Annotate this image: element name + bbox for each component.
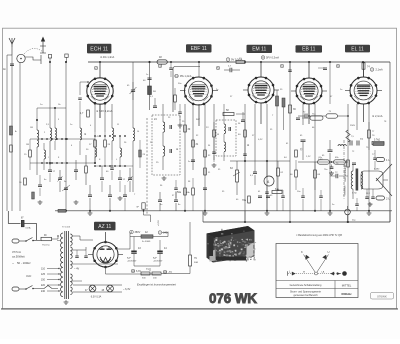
svg-text:8μF: 8μF: [153, 258, 157, 260]
IF transformer 2: [216, 104, 236, 161]
text 23: [134, 154, 159, 196]
svg-text:EB 11: EB 11: [302, 47, 315, 53]
hatch r: [139, 140, 142, 168]
svg-text:8μF: 8μF: [127, 258, 131, 260]
svg-text:1M: 1M: [30, 127, 33, 129]
ground: [162, 176, 167, 180]
svg-text:+450/550V: +450/550V: [153, 261, 163, 263]
tube V2 ECH11: [184, 77, 212, 105]
wire B+: [118, 232, 130, 249]
svg-text:076WK: 076WK: [377, 294, 387, 298]
wire: [255, 104, 267, 211]
value labels scatter E: [160, 181, 261, 201]
pad x66: [65, 54, 68, 62]
aerial arrow symbol: [40, 37, 46, 54]
speaker caps: [365, 189, 375, 206]
connector 2L: [376, 196, 390, 201]
wire: [134, 258, 160, 266]
resistor 6P: [137, 203, 151, 222]
wire ground bus A: [55, 210, 392, 212]
fuse: [8, 211, 36, 240]
cathode resistor: [347, 160, 356, 167]
IF transformer 1: [152, 104, 180, 175]
wire detector line: [230, 160, 290, 162]
svg-text:② 40v 1,4mA: ② 40v 1,4mA: [100, 56, 115, 59]
svg-text:Feld. erforderlich: Feld. erforderlich: [344, 163, 347, 182]
ground: [64, 300, 69, 304]
vals3: [160, 204, 373, 206]
svg-text:~ 4V: ~ 4V: [74, 268, 80, 271]
capacitor antenna series: [3, 64, 14, 71]
antenna switch: [17, 48, 43, 64]
svg-text:1n: 1n: [146, 74, 148, 76]
svg-text:× Bandabstimmung aus RFN-VHF: × Bandabstimmung aus RFN-VHF Tx QB: [296, 234, 342, 237]
svg-text:076 WK: 076 WK: [209, 291, 257, 306]
lamp 1: [85, 285, 96, 292]
top cap 73: [357, 138, 363, 146]
res: [174, 88, 177, 110]
volume pot: [230, 161, 240, 195]
res 33: [213, 122, 220, 148]
bus text: [100, 56, 115, 59]
svg-text:EBF 11: EBF 11: [191, 46, 208, 52]
osc text: [40, 104, 61, 106]
cap: [241, 112, 245, 122]
antenna: [9, 38, 15, 55]
cap 19: [100, 166, 104, 192]
svg-text:Tonblende: Tonblende: [345, 185, 347, 196]
tube V1 ECH11 mixer: [87, 78, 114, 105]
svg-text:③ 94V 4,2mA: ③ 94V 4,2mA: [96, 109, 113, 113]
tube V3 EBF11: [248, 77, 275, 104]
wire ground bus B: [203, 221, 390, 223]
resistor: [80, 110, 89, 117]
resistor: [204, 150, 207, 157]
band switch contacts row 2: [41, 162, 126, 167]
cap 77: [373, 150, 377, 170]
cap under V3: [265, 186, 269, 211]
val text: [26, 124, 127, 183]
lamp 2: [102, 285, 114, 292]
wire: [348, 104, 369, 222]
resistor: [85, 155, 88, 185]
svg-text:⑨ 2,1mA: ⑨ 2,1mA: [372, 114, 383, 118]
label 6,3V: [131, 269, 141, 273]
svg-text:6,3V: 6,3V: [136, 270, 141, 273]
svg-text:96V: 96V: [196, 119, 200, 121]
svg-text:6,3V 0,3A: 6,3V 0,3A: [91, 296, 102, 299]
thermo resistor: [41, 235, 59, 247]
tube label EL 11: [345, 45, 370, 53]
wire HV2: [72, 247, 86, 250]
speaker dashdot: [343, 140, 345, 200]
cap: [258, 196, 270, 198]
oscillator coil L1: [37, 120, 39, 175]
coupling cap 72: [298, 104, 322, 119]
switch linkage dash: [146, 118, 148, 214]
svg-text:600kHz: 600kHz: [341, 292, 352, 296]
legend table: [276, 244, 358, 298]
coil L5: [80, 112, 82, 155]
hum pot 71: [141, 268, 161, 280]
chassis photograph: [207, 226, 257, 263]
svg-text:AZ 11: AZ 11: [98, 224, 111, 230]
svg-text:250V: 250V: [350, 125, 356, 127]
text brumm: [137, 283, 176, 287]
capacitor under IF1b: [174, 192, 178, 211]
res 28: [104, 132, 111, 166]
resistor 30: [184, 125, 191, 132]
svg-text:377mA: 377mA: [12, 250, 21, 254]
resistor on ground bus: [58, 209, 66, 212]
svg-text:5.7Ω: 5.7Ω: [352, 193, 357, 195]
junction component: [345, 206, 357, 223]
wire V4 top: [291, 62, 327, 124]
capacitor: [203, 188, 207, 190]
svg-text:EM 11: EM 11: [252, 47, 266, 53]
text agc: [176, 119, 209, 151]
text v1: [84, 133, 100, 138]
label 95V: [175, 74, 192, 78]
svg-text:Thermo: Thermo: [42, 244, 50, 247]
tube V5 EL11 output: [350, 77, 378, 105]
lamp caption: [91, 296, 102, 299]
vals: [150, 83, 343, 98]
mains plug lower: [12, 287, 19, 291]
tone line: [298, 157, 348, 175]
cap 78: [355, 198, 359, 211]
cap 20: [118, 170, 126, 192]
svg-text:2,1mA: 2,1mA: [376, 69, 384, 72]
cap 64: [281, 190, 285, 211]
wire: [244, 211, 246, 222]
wire HV to AZ plate: [72, 236, 93, 240]
tuning gang C1: [58, 170, 63, 192]
svg-text:U: U: [328, 250, 330, 254]
wire: [65, 61, 67, 211]
svg-text:150: 150: [41, 279, 46, 282]
junctions: [36, 61, 96, 164]
resistor 31: [192, 140, 199, 147]
wire AZ cathode: [106, 267, 161, 274]
screen cap v2: [178, 104, 183, 127]
capacitor under IF1: [158, 192, 162, 211]
cap: [328, 140, 333, 211]
wire osc fb: [95, 165, 133, 166]
top cap pair: [338, 141, 352, 147]
wire grid1: [80, 81, 89, 95]
wire V5 top: [345, 62, 382, 122]
label 9V 0,3mA: [226, 58, 242, 62]
wire: [95, 104, 105, 132]
transformer taps: [41, 268, 60, 294]
svg-text:Tr 5.10h: Tr 5.10h: [62, 226, 71, 229]
capacitor: [88, 185, 92, 211]
svg-text:50Ω: 50Ω: [194, 262, 198, 264]
wire: [236, 104, 245, 222]
resistor 48 on top bus: [148, 56, 167, 64]
wire V3 top: [243, 62, 279, 124]
field coil label: [352, 169, 380, 195]
rotated text: [344, 163, 347, 182]
coil L7: [120, 136, 122, 166]
res 27: [89, 132, 96, 163]
wire grid loop V2: [173, 67, 200, 113]
cap pair: [75, 250, 88, 258]
hatched res2: [32, 192, 35, 199]
decoupling column: [143, 62, 156, 110]
res 68: [314, 162, 321, 190]
svg-text:0,2V: 0,2V: [258, 139, 263, 141]
svg-text:Fs 530Ω: Fs 530Ω: [142, 241, 151, 243]
svg-text:+0,5V: +0,5V: [158, 220, 160, 226]
wire: [162, 233, 168, 237]
bus res 2: [236, 58, 245, 64]
label 2,1mA: [370, 68, 383, 72]
svg-text:Empfänger ist brummkompensiert: Empfänger ist brummkompensiert: [137, 283, 176, 287]
hatched res: [10, 126, 18, 152]
resistor 590: [372, 140, 384, 145]
svg-text:240: 240: [41, 290, 46, 293]
svg-text:2 L: 2 L: [386, 197, 390, 201]
capacitor: [191, 160, 195, 162]
trimmer 45: [127, 82, 137, 100]
bus cap 2: [288, 62, 292, 72]
label SFV 0,3mA: [261, 56, 279, 60]
wire antenna down: [7, 55, 12, 211]
padder: [62, 185, 70, 191]
wire AZ stubs: [88, 232, 123, 255]
switch upper: [19, 238, 41, 242]
coil: [112, 104, 114, 160]
cap 29: [110, 160, 114, 180]
wire: [37, 107, 66, 120]
wire V2 stubs: [180, 91, 218, 127]
tube label EB 11: [296, 45, 323, 53]
resistor 50a: [177, 188, 186, 195]
wire: [290, 62, 315, 222]
phone jack A: [264, 161, 274, 186]
title 076 WK: [209, 291, 257, 306]
wire bus link: [203, 211, 390, 222]
label 340V: [158, 231, 169, 235]
capacitor: [74, 160, 78, 180]
svg-text:~: ~: [12, 262, 14, 266]
wire top left: [19, 58, 21, 62]
wire heater main: [72, 280, 82, 282]
cap: [253, 161, 257, 185]
text volt: [26, 274, 32, 278]
svg-text:gemessen bei Bereich: gemessen bei Bereich: [293, 294, 318, 297]
hatched res pair V3: [272, 90, 285, 211]
cap: [153, 98, 157, 108]
tube label EM 11: [247, 45, 273, 53]
vals2: [188, 155, 301, 197]
bus junction: [170, 61, 331, 63]
gnd: [38, 200, 43, 204]
cap+res pair: [295, 140, 306, 160]
electrolytic C43: [127, 237, 141, 263]
res under V2b: [204, 168, 211, 175]
coil: [133, 62, 135, 192]
v5 top res: [329, 62, 331, 104]
coupl cap 72: [330, 172, 348, 178]
res 50b: [186, 178, 194, 211]
text hz: [12, 261, 31, 266]
wire: [161, 273, 190, 275]
res 15: [24, 139, 31, 170]
svg-text:380V: 380V: [135, 231, 141, 234]
text det: [247, 139, 287, 159]
osc pad: [123, 185, 127, 211]
stamp box: [371, 293, 394, 300]
label 94V: [96, 109, 113, 113]
res 60: [238, 122, 246, 150]
resistor 79: [189, 222, 199, 274]
capacitor: [108, 185, 112, 211]
svg-text:50 - 100Hz: 50 - 100Hz: [17, 261, 31, 265]
tube label AZ 11: [94, 222, 116, 231]
svg-text:125: 125: [41, 273, 46, 276]
res 76: [368, 122, 376, 150]
bus cap 1: [169, 62, 173, 77]
tube V6 AZ11 rectifier: [93, 241, 118, 269]
svg-text:1M: 1M: [26, 144, 29, 146]
wire right bus: [389, 62, 391, 222]
text v5: [350, 125, 375, 156]
cap grid: [78, 98, 82, 112]
svg-text:50a: 50a: [177, 191, 182, 194]
text sw: [48, 157, 118, 161]
connector 1L: [376, 158, 390, 163]
svg-text:220: 220: [41, 284, 46, 287]
svg-text:ECH 11: ECH 11: [90, 46, 108, 52]
caps under t2: [174, 180, 178, 198]
wire: [30, 139, 95, 163]
text v4: [300, 147, 323, 161]
output transformer: [351, 165, 363, 199]
wire V1 top: [99, 62, 101, 118]
anode line T2: [198, 62, 200, 77]
svg-text:~ 6,3V: ~ 6,3V: [123, 288, 131, 291]
wire: [19, 63, 21, 212]
electrolytic C44: [153, 240, 167, 263]
svg-text:⑥: ⑥: [176, 148, 178, 151]
value labels scatter C: [238, 123, 315, 145]
power transformer T1: [61, 231, 73, 299]
note bandabstimmung: [296, 234, 342, 237]
svg-text:110: 110: [41, 268, 46, 271]
value labels scatter D: [322, 121, 387, 165]
circled callouts: [94, 64, 340, 70]
cap v4: [301, 188, 305, 211]
tuning gang C2: [128, 168, 133, 192]
tube label ECH 11 V1: [87, 44, 111, 54]
cap 34: [212, 148, 217, 167]
coil L4: [55, 118, 57, 150]
ground symbols row: [88, 211, 372, 215]
svg-text:Gezeichnete Schalterstellung: Gezeichnete Schalterstellung: [290, 284, 322, 287]
resistor 75 zigzag: [346, 130, 355, 142]
band switch contacts row 1: [41, 135, 126, 140]
svg-text:ca.50Watt: ca.50Watt: [12, 255, 25, 259]
res 16: [19, 178, 26, 185]
res v4 grid: [290, 160, 297, 190]
mains plug upper: [12, 239, 19, 243]
svg-text:5.7kΩ: 5.7kΩ: [374, 140, 380, 142]
res 590: [373, 143, 384, 146]
svg-text:⑤: ⑤: [84, 133, 86, 136]
cap 17: [48, 163, 56, 182]
res 62: [277, 161, 284, 190]
wire top bus: [88, 61, 390, 63]
svg-text:-2V: -2V: [96, 136, 100, 138]
svg-text:M: M: [303, 271, 305, 273]
resistor 73 oval: [322, 111, 349, 118]
speaker: [361, 164, 392, 196]
coil L2: [48, 55, 51, 165]
tube label EBF 11 V2: [186, 44, 212, 52]
cap 69: [319, 190, 323, 211]
label 380V: [130, 230, 141, 234]
tube V4 EB11: [296, 78, 323, 105]
gnd: [118, 196, 123, 200]
wire heater AZ: [72, 264, 118, 271]
wire det: [277, 189, 283, 190]
cap 4n7 V2: [224, 66, 240, 73]
svg-text:1,2V: 1,2V: [306, 156, 311, 158]
value labels scatter B: [150, 117, 221, 171]
switch lower: [19, 286, 58, 290]
screen caps: [318, 68, 327, 70]
svg-text:95v 1,4mA: 95v 1,4mA: [180, 75, 192, 78]
svg-text:K: K: [301, 250, 303, 254]
coil L3: [44, 143, 46, 170]
svg-text:EL 11: EL 11: [351, 46, 364, 52]
resistor 58: [223, 109, 234, 116]
svg-text:Volt:: Volt:: [26, 274, 32, 278]
resistor h: [272, 188, 282, 194]
wire: [185, 104, 214, 211]
cap 71a top: [296, 114, 323, 121]
coil L6: [95, 139, 97, 163]
svg-text:MITTEL: MITTEL: [342, 283, 352, 287]
svg-text:0,8 A: 0,8 A: [26, 227, 32, 230]
resistor 74 plate: [362, 63, 370, 77]
label: [372, 114, 383, 118]
text mains: [12, 250, 25, 259]
value labels scatter A: [30, 119, 140, 147]
svg-text:1 L: 1 L: [386, 158, 390, 162]
transformer top label: [57, 226, 71, 241]
label -7V: [163, 270, 172, 274]
tonblende: [345, 185, 347, 196]
svg-text:+450/550V: +450/550V: [127, 261, 137, 263]
svg-text:9Ω: 9Ω: [153, 91, 156, 93]
svg-text:5FV 0,3mA: 5FV 0,3mA: [266, 56, 279, 60]
vert text 13: [158, 220, 160, 226]
wire lamps: [73, 285, 131, 292]
res 36: [289, 105, 297, 113]
cap 18: [38, 175, 42, 196]
svg-text:⑩: ⑩: [247, 144, 249, 147]
svg-text:70a: 70a: [242, 199, 247, 202]
ground: [74, 200, 79, 204]
choke 42: [130, 231, 168, 243]
resistor 70a: [242, 196, 250, 203]
cap 61: [243, 150, 247, 161]
